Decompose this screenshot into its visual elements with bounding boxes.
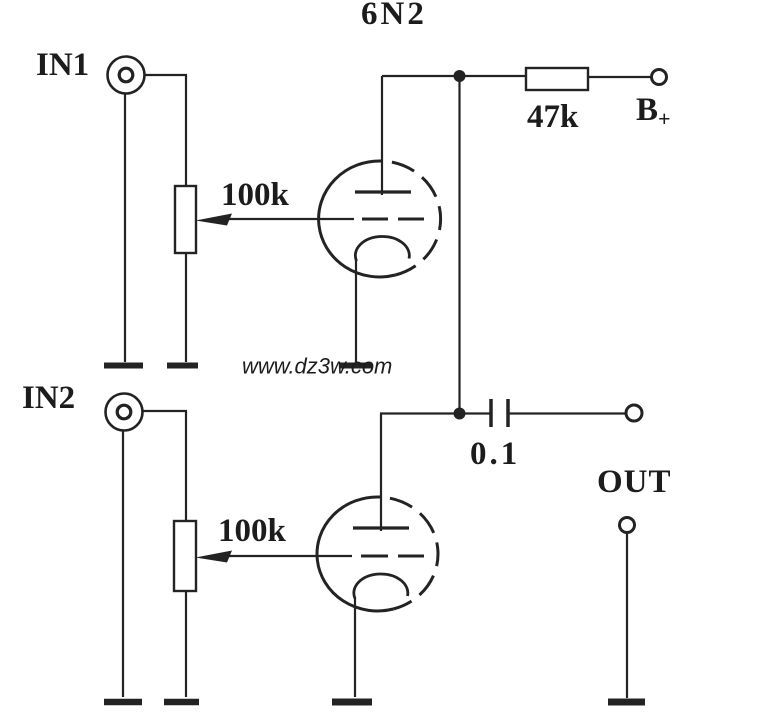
triode V1a envelope (solid left arc)	[319, 161, 396, 277]
wire OUT ground lead	[626, 533, 628, 699]
resistor R1 body	[526, 68, 588, 90]
wire RP2 bottom to ground	[185, 591, 187, 697]
terminal OUT ground	[620, 518, 635, 533]
wire J2 ground lead	[122, 431, 124, 698]
svg-text:100k: 100k	[218, 513, 287, 549]
svg-text:IN2: IN2	[22, 380, 75, 416]
wire B+ bus (node A to node B)	[458, 76, 460, 414]
V1a cathode lead	[355, 260, 357, 362]
ground (V1a cathode)	[340, 363, 372, 369]
V1a anode	[355, 190, 411, 193]
svg-text:IN1: IN1	[36, 47, 89, 83]
V2a anode	[353, 526, 409, 529]
wire node B horizontal	[380, 412, 490, 414]
svg-text:+: +	[658, 106, 671, 131]
RP2 wiper arrow	[196, 551, 353, 563]
wire RP1 bottom to ground	[185, 253, 187, 362]
triode V2a envelope (dashed right arc)	[380, 497, 438, 609]
V2a cathode lead	[354, 598, 356, 697]
junction node B	[454, 408, 466, 420]
V1a cathode	[355, 236, 409, 261]
label B+	[636, 92, 671, 131]
wire J2 to RP2 top	[143, 411, 187, 521]
potentiometer RP2 body	[174, 521, 196, 591]
RP1 wiper arrow	[196, 214, 355, 226]
V2a cathode	[354, 574, 408, 599]
capacitor C1	[491, 399, 508, 427]
wire R1 to B+ terminal	[588, 76, 651, 78]
input jack J2 (IN2)	[106, 394, 143, 431]
triode V1a envelope (dashed right arc)	[382, 161, 441, 275]
ground (IN1 jack)	[104, 363, 143, 369]
V1a grid	[362, 218, 424, 221]
svg-text:100k: 100k	[221, 177, 290, 213]
wire C1 to OUT terminal	[508, 412, 626, 414]
wire V1a anode to node A	[382, 75, 526, 77]
svg-text:OUT: OUT	[597, 464, 672, 500]
svg-text:47k: 47k	[527, 99, 579, 135]
svg-text:www.dz3w.com: www.dz3w.com	[242, 354, 392, 379]
terminal B+	[652, 70, 667, 85]
ground (OUT)	[608, 699, 645, 706]
V2a anode lead wire	[380, 414, 382, 532]
V1a anode lead	[381, 76, 383, 195]
potentiometer RP1 body	[175, 186, 196, 253]
input jack J1 (IN1)	[108, 57, 145, 94]
triode V2a envelope (solid left arc)	[317, 497, 393, 611]
svg-text:0.1: 0.1	[470, 436, 520, 472]
svg-text:6N2: 6N2	[361, 0, 427, 32]
terminal OUT signal	[626, 405, 642, 421]
ground (V2a cathode)	[332, 699, 372, 706]
wire J1 to RP1 top	[145, 75, 187, 187]
junction node A	[454, 70, 466, 82]
ground (RP1)	[167, 363, 198, 369]
svg-text:B: B	[636, 92, 658, 128]
ground (RP2)	[164, 699, 199, 706]
wire J1 ground lead	[124, 94, 126, 363]
ground (IN2 jack)	[104, 699, 142, 706]
V2a grid	[361, 555, 424, 558]
